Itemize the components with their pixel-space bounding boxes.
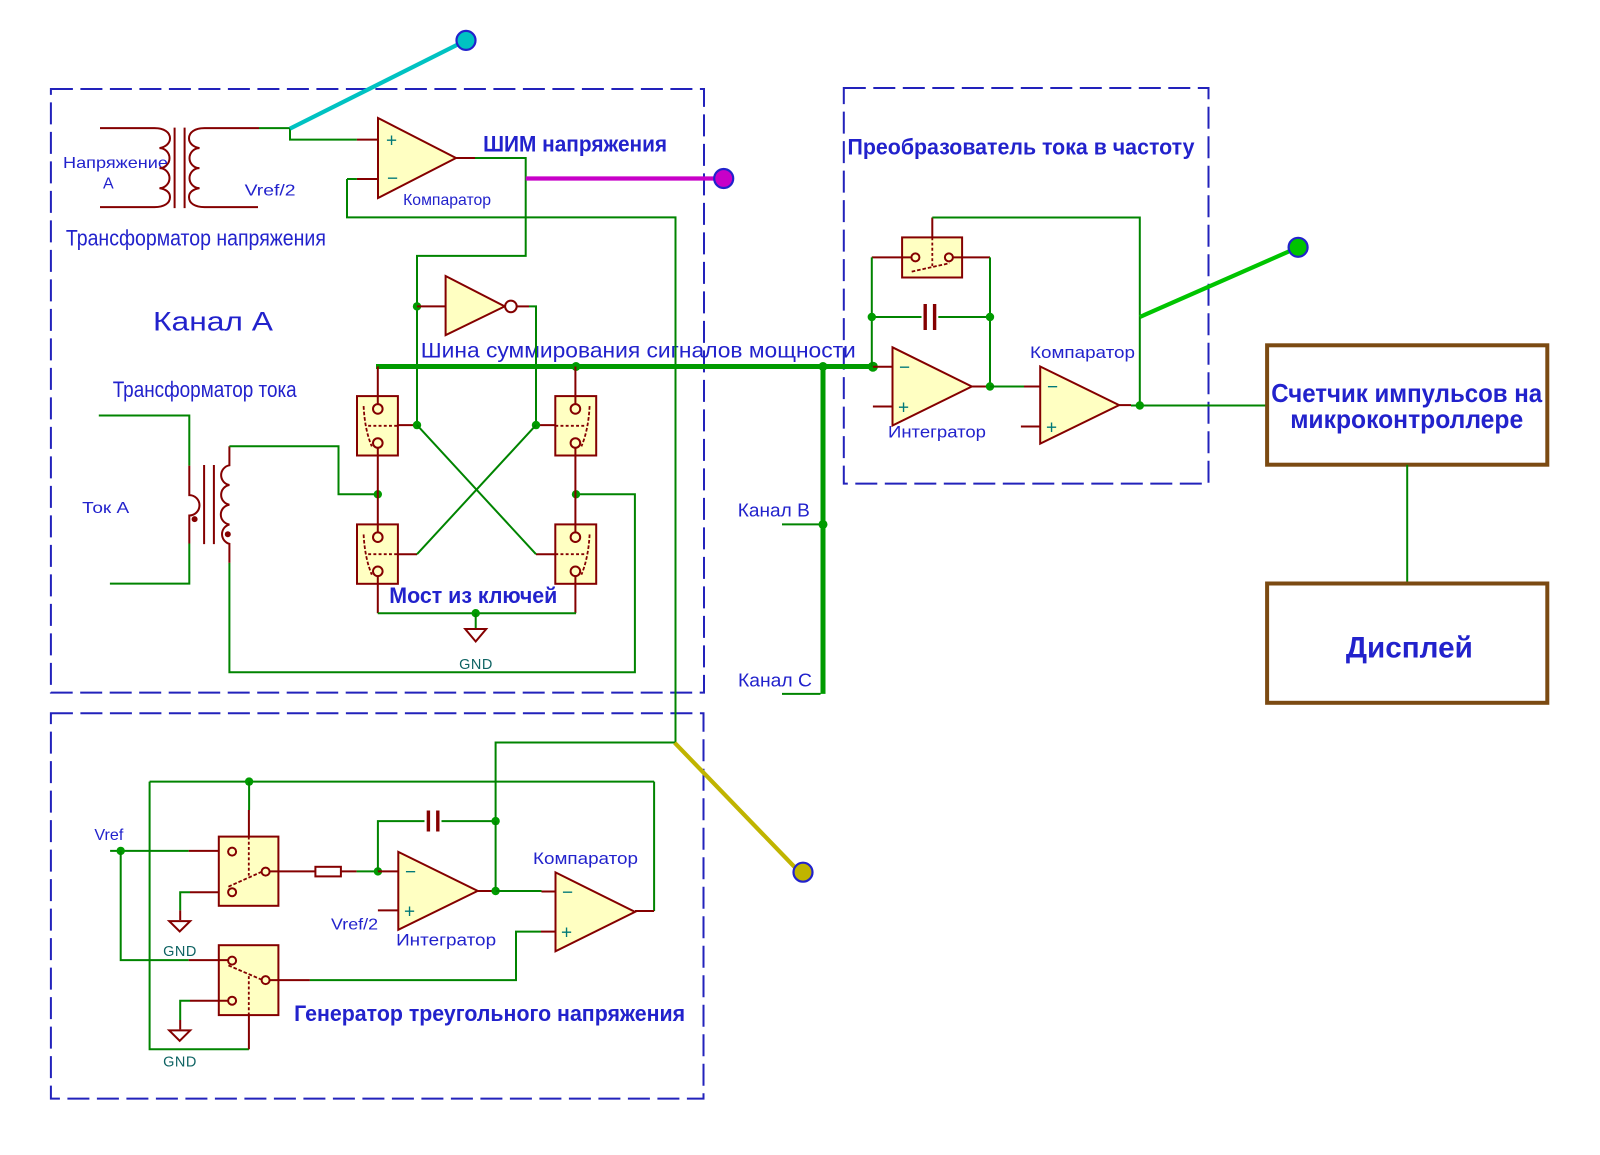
wire: output to pulse counter <box>1131 405 1267 407</box>
svg-text:Канал C: Канал C <box>738 670 812 690</box>
wire: Vref branch down to lower switch <box>121 851 189 960</box>
pin: gen comparator plus stub <box>541 931 556 933</box>
pin: S2 middle contact stub <box>536 424 555 426</box>
op-amp comparator U6 body <box>556 872 636 951</box>
svg-text:Трансформатор тока: Трансформатор тока <box>113 377 298 402</box>
wire: T2 secondary top to left bridge node <box>229 446 377 494</box>
block: display box <box>1267 584 1547 703</box>
wire: resistor to integrator minus node <box>357 870 378 872</box>
ground symbol: generator upper <box>169 921 190 931</box>
switch S2 top-right of bridge <box>555 396 596 455</box>
node: gen integrator output junction <box>491 887 499 895</box>
pin: lower switch input B stub <box>190 1000 228 1002</box>
transformer T1 voltage: core <box>175 128 185 209</box>
wire: cap branch up-left <box>378 821 425 871</box>
op-amp comparator A body <box>378 118 456 198</box>
wire: bridge bottom rail <box>378 612 576 614</box>
svg-text:Компаратор: Компаратор <box>533 849 638 868</box>
wire: cross diagonal left-to-right <box>417 425 536 554</box>
svg-text:Шина суммирования сигналов мощ: Шина суммирования сигналов мощности <box>421 340 856 363</box>
op-amp integrator U5 body <box>398 852 477 930</box>
svg-text:Vref/2: Vref/2 <box>331 917 378 934</box>
transformer T2 current: primary lead and single-turn <box>189 466 199 544</box>
wire: switch left leg down to integrator minus <box>871 257 873 366</box>
pin: upper switch output to resistor <box>270 870 316 872</box>
svg-text:Компаратор: Компаратор <box>1030 343 1135 362</box>
wire: inverter input stub <box>417 305 446 307</box>
wire: Канал B stub <box>782 523 823 525</box>
pin: comparator output stub <box>1119 404 1131 406</box>
wire: comparator plus pin stub <box>357 139 378 141</box>
switch S1 top-left of bridge <box>357 396 398 455</box>
pin: S3 middle contact stub <box>398 553 417 555</box>
node: cap left junction <box>868 313 876 321</box>
net line: PWM magenta <box>526 176 715 180</box>
frame: Channel A dashed box <box>51 89 704 693</box>
svg-text:Дисплей: Дисплей <box>1346 632 1473 665</box>
pin: GND stem lower <box>179 1020 181 1029</box>
pin: S4 middle contact stub <box>536 553 555 555</box>
transformer T2 current: secondary winding <box>221 446 230 563</box>
block: pulse counter box <box>1267 345 1547 464</box>
node: bus junction at right switch column <box>572 362 581 371</box>
pin: S5 top pin <box>931 218 933 238</box>
svg-text:−: − <box>899 358 910 379</box>
wire: converter feedback top <box>932 218 1140 406</box>
node: integrator output junction <box>986 382 994 390</box>
pin: upper switch input A stub <box>189 850 228 852</box>
pin: S4 top pin <box>574 494 576 532</box>
node: top rail junction at switch pin <box>245 777 253 785</box>
pin: integrator output stub <box>972 386 990 388</box>
wire: vertical cap-output link <box>495 821 497 891</box>
frame: current-to-frequency converter dashed box <box>844 88 1209 484</box>
net line: triangle wave yellow <box>675 743 796 869</box>
wire: T1 secondary top to comparator <box>259 128 357 140</box>
node: output feedback junction <box>1136 401 1144 409</box>
node: cap right junction <box>986 313 994 321</box>
pin: lower switch input A stub <box>189 959 228 961</box>
node: Vref junction <box>117 847 125 855</box>
wire: Канал C stub <box>782 693 821 695</box>
pin: gen integrator minus stub <box>378 870 398 872</box>
svg-text:Vref: Vref <box>94 827 124 844</box>
pin: S3 bottom pin <box>377 576 379 613</box>
pin: comparator minus stub <box>1024 386 1040 388</box>
node: bus junction at vertical branch <box>819 362 828 371</box>
wire: generator left loop <box>150 782 249 1050</box>
wire: top pin upper switch <box>248 782 250 810</box>
wire: feedback stub to minus <box>347 178 357 180</box>
svg-text:GND: GND <box>163 1054 197 1070</box>
transformer T1 voltage: primary winding <box>100 128 170 207</box>
svg-text:микроконтроллере: микроконтроллере <box>1290 404 1523 434</box>
wire: T2 primary bottom lead <box>110 544 189 584</box>
bus: power summing bus horizontal <box>376 364 873 369</box>
node: cap right junction <box>491 817 499 825</box>
pin: S5 right pin <box>953 256 990 258</box>
wire: integrator output to comparator minus <box>990 386 1024 388</box>
svg-text:Канал B: Канал B <box>738 501 810 521</box>
terminal: yellow circle <box>794 863 813 882</box>
pin: comparator plus stub <box>1021 426 1040 428</box>
capacitor C1 converter: right wire <box>938 316 990 318</box>
node: inverter input junction <box>413 302 421 310</box>
svg-text:Vref/2: Vref/2 <box>245 182 296 199</box>
svg-text:Компаратор: Компаратор <box>403 192 491 209</box>
svg-text:+: + <box>561 923 572 944</box>
wire: comparator A output stub <box>456 157 475 159</box>
switch S3 bottom-left of bridge <box>357 524 398 583</box>
pin: S2 bottom pin <box>574 448 576 495</box>
ground symbol: generator lower <box>169 1030 190 1040</box>
pin: gen comparator output stub <box>635 910 654 912</box>
pin: GND stem upper <box>179 910 181 920</box>
svg-text:GND: GND <box>459 657 493 673</box>
node: bridge bottom midpoint <box>472 609 480 617</box>
svg-text:GND: GND <box>163 944 197 960</box>
terminal: green circle <box>1289 238 1308 257</box>
wire: comparator A feedback (minus input to triangle wave line) <box>347 179 676 821</box>
svg-text:+: + <box>1046 418 1057 439</box>
wire: comparator A output to PWM node and inverter <box>417 158 526 425</box>
svg-text:А: А <box>103 175 114 192</box>
pin: resistor right stub <box>341 870 357 872</box>
ground symbol: bridge <box>465 629 486 642</box>
switch S5 converter reset <box>902 237 962 277</box>
inverter U2 bubble <box>505 301 517 313</box>
wire: T2 secondary bottom to right bridge node <box>229 494 635 672</box>
svg-text:−: − <box>562 883 573 904</box>
svg-text:−: − <box>405 862 416 883</box>
pin: gen comparator minus stub <box>542 891 556 893</box>
wire: inverter output down to right switch node <box>529 306 536 425</box>
svg-text:Интегратор: Интегратор <box>396 931 496 950</box>
net line: frequency output bright green <box>1140 251 1291 318</box>
wire: integrator output to comparator minus <box>496 890 542 892</box>
svg-text:Генератор треугольного напряже: Генератор треугольного напряжения <box>294 1001 685 1026</box>
wire: comparator minus pin stub <box>357 178 378 180</box>
wire: comparator output feedback vertical <box>653 782 655 911</box>
wire: lower switch GND branch <box>180 1001 190 1020</box>
svg-text:+: + <box>386 131 397 152</box>
node: left bridge midpoint junction <box>374 490 382 498</box>
svg-text:Мост из ключей: Мост из ключей <box>389 583 557 608</box>
pin: integrator minus stub <box>873 366 893 368</box>
pin: lower switch bottom pin <box>248 1015 250 1049</box>
svg-text:Напряжение: Напряжение <box>63 155 168 172</box>
terminal: PWM magenta circle <box>714 169 733 188</box>
pin: S1 top pin to bus <box>377 367 379 405</box>
transformer T2 current: core <box>204 465 214 544</box>
switch S4 bottom-right of bridge <box>555 524 596 583</box>
inverter U2 body <box>446 276 505 335</box>
svg-text:−: − <box>387 169 398 190</box>
wire: counter to display <box>1406 465 1408 584</box>
svg-text:Интегратор: Интегратор <box>888 423 986 442</box>
wire: lower switch output to comparator plus <box>270 979 310 981</box>
svg-text:Канал А: Канал А <box>153 307 273 337</box>
resistor R1 <box>315 867 341 877</box>
svg-text:+: + <box>404 902 415 923</box>
svg-text:Ток А: Ток А <box>82 500 129 517</box>
wire: stub to ground <box>475 613 477 628</box>
wire: switch right leg down to integrator output <box>989 257 991 386</box>
pin: upper switch input B stub <box>190 891 228 893</box>
capacitor C1 converter: left wire <box>872 316 922 318</box>
pin: gen integrator plus stub <box>378 909 398 911</box>
svg-text:−: − <box>1047 377 1058 398</box>
wire: upper switch GND branch <box>180 892 190 910</box>
node: right bridge midpoint junction <box>572 490 580 498</box>
wire: cross diagonal right-to-left <box>417 425 536 554</box>
wire: output path to comparator plus <box>310 932 541 981</box>
pin: gen integrator output stub <box>478 890 496 892</box>
svg-text:+: + <box>898 398 909 419</box>
op-amp integrator U3 body <box>893 347 972 425</box>
node: Канал B junction <box>819 520 828 529</box>
bus: vertical to channel C <box>821 367 826 694</box>
capacitor C1 converter: plates <box>925 304 934 330</box>
transformer T1 voltage: secondary winding <box>189 128 259 207</box>
pin: integrator plus stub <box>873 406 893 408</box>
node: right cross junction <box>532 421 540 429</box>
pin: upper switch top pin <box>248 810 250 837</box>
transformer T2 current: primary dot <box>192 516 198 522</box>
net line: cyan voltage input <box>290 44 459 129</box>
terminal: cyan circle <box>457 31 476 50</box>
wire: generator top feedback rail <box>150 781 654 783</box>
pin: S5 left pin <box>872 256 912 258</box>
svg-text:Преобразователь тока в частоту: Преобразователь тока в частоту <box>848 135 1196 160</box>
wire: inverter output <box>517 305 529 307</box>
frame: triangle generator dashed box <box>51 713 704 1098</box>
wire: Vref input <box>110 850 189 852</box>
svg-text:ШИМ напряжения: ШИМ напряжения <box>483 131 667 156</box>
capacitor C2 generator: plates <box>428 811 437 832</box>
node: left cross junction <box>413 421 421 429</box>
pin: S1 middle contact stub <box>398 424 417 426</box>
switch S7 generator lower <box>219 945 279 1015</box>
op-amp comparator U4 body <box>1040 367 1119 444</box>
wire: cap right to output node <box>442 820 496 822</box>
wire: T2 primary top lead <box>99 416 190 466</box>
pin: S3 top pin <box>377 494 379 532</box>
pin: S1 bottom pin <box>377 448 379 495</box>
switch S6 generator upper <box>219 837 279 906</box>
pin: S4 bottom pin <box>574 576 576 613</box>
transformer T2 current: secondary dot <box>225 531 231 537</box>
node: bus end at integrator input <box>868 362 878 372</box>
node: integrator minus junction <box>374 867 382 875</box>
pin: S2 top pin to bus <box>574 367 576 405</box>
svg-text:Трансформатор напряжения: Трансформатор напряжения <box>66 225 326 250</box>
